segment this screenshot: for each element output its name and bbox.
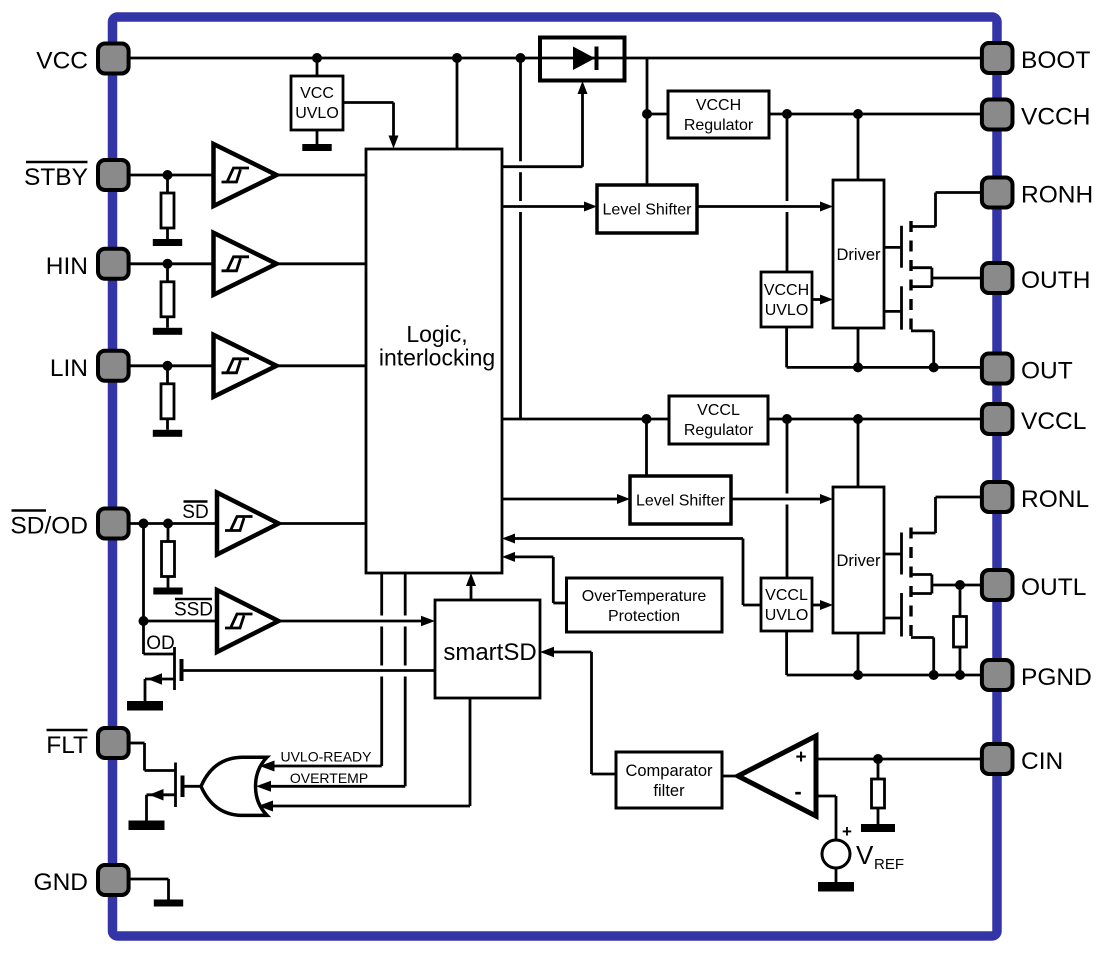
block OverTemperature Protection [567, 578, 723, 632]
voltage source VREF [822, 840, 850, 868]
label comparator minus [794, 779, 801, 804]
wire OVERTEMP [266, 785, 405, 788]
wire OTP to logic (arrowed) [502, 552, 567, 603]
svg-text:Level Shifter: Level Shifter [603, 202, 693, 219]
wire Q2 mid node to OUTL [911, 575, 980, 594]
wire BOOT to VCCH regulator [646, 58, 649, 114]
wire OD FET source drop [144, 679, 147, 701]
transistor FLT FET gate bar [181, 776, 185, 798]
wire logic to level shifter H (arrowed) [502, 202, 597, 212]
junction driver H tap [853, 109, 863, 119]
block VCCH UVLO [761, 272, 812, 327]
svg-text:Logic,: Logic, [406, 321, 467, 347]
wire VCCH rail [769, 113, 980, 116]
pin label RONH [1021, 182, 1093, 209]
svg-text:UVLO-READY: UVLO-READY [280, 749, 372, 765]
wire HIN buffer to logic [277, 262, 367, 265]
label SD (overline) [182, 502, 208, 524]
resistor LIN pulldown [161, 384, 174, 419]
svg-text:CIN: CIN [1021, 748, 1063, 775]
OR gate U1 (fault logic) [201, 757, 267, 815]
ground STBY pulldown [153, 239, 182, 246]
wire VCC UVLO drop [316, 58, 319, 76]
pin GND [98, 865, 129, 895]
label SSD (overline) [174, 599, 213, 621]
label VCCH Regulator [684, 97, 754, 134]
wire logic to level shifter L (arrowed) [502, 494, 630, 504]
wire logic to diode [502, 81, 588, 167]
svg-text:VCCL: VCCL [765, 587, 808, 604]
wire VCCH reg to level shifter [646, 114, 649, 185]
svg-text:Level Shifter: Level Shifter [636, 493, 726, 510]
junction VCCL UVLO tap [782, 414, 792, 424]
resistor HIN pulldown [161, 282, 174, 317]
resistor SD pulldown [162, 542, 175, 577]
pin label BOOT [1021, 47, 1090, 74]
ground HIN pulldown [153, 328, 182, 335]
svg-text:Comparator: Comparator [625, 762, 713, 780]
IC boundary (chip border) [113, 17, 998, 936]
svg-text:LIN: LIN [50, 355, 88, 382]
transistor OD FET gate bar [180, 659, 184, 681]
svg-text:Regulator: Regulator [684, 117, 754, 134]
wire OUT rail [787, 366, 980, 369]
block Level Shifter (high) [597, 185, 697, 233]
transistor Q1 gate lead 2 [884, 310, 902, 313]
wire OUTL resistor stem [959, 585, 962, 617]
pin label OUTL [1021, 574, 1086, 601]
wire VCCH regulator input [647, 113, 668, 116]
wire HIN resistor stem [166, 264, 169, 282]
transistor Q2 gate bar 2 [900, 593, 903, 637]
junction VCC-UVLO tap [312, 53, 322, 63]
junction OUTL resistor bottom [955, 670, 965, 680]
label VCCL Regulator [684, 402, 754, 439]
wire HIN input [129, 262, 214, 265]
ground LIN pulldown [153, 430, 182, 437]
wire comparator filter to smartSD (arrowed) [540, 647, 616, 774]
block Driver (low side) [833, 487, 884, 633]
junction SSD [139, 616, 149, 626]
transistor Q1 channel (dashed) [909, 221, 912, 338]
pin label VCC [36, 48, 88, 75]
pin HIN [98, 249, 129, 279]
wire SD/OD input [129, 522, 217, 525]
junction driver H bottom [853, 362, 863, 372]
wire OD FET source (arrowed) [145, 673, 175, 685]
wire comparator minus to VREF [816, 796, 836, 840]
svg-text:+: + [842, 822, 852, 841]
svg-text:OD: OD [146, 633, 175, 654]
svg-text:VCCH: VCCH [1021, 104, 1090, 131]
pin label LIN [50, 355, 88, 382]
wire OD FET to smartSD [183, 669, 436, 672]
svg-text:BOOT: BOOT [1021, 47, 1090, 74]
wire PGND rail [787, 674, 980, 677]
label VCCH UVLO [764, 282, 809, 319]
label Driver (high side) [837, 246, 882, 264]
svg-text:Regulator: Regulator [684, 422, 754, 439]
wire GND pin [129, 879, 169, 900]
schmitt buffer STBY [214, 144, 277, 206]
svg-text:PGND: PGND [1021, 664, 1092, 691]
pin VCCL [982, 404, 1013, 434]
svg-text:Driver: Driver [837, 552, 882, 570]
svg-text:OverTemperature: OverTemperature [582, 588, 707, 605]
label Level Shifter (high) [603, 202, 693, 219]
pin label VCCH [1021, 104, 1090, 131]
svg-text:VCCH: VCCH [764, 282, 809, 299]
pin VCCH [982, 100, 1013, 130]
block VCCL Regulator [669, 396, 768, 444]
pin label GND [34, 869, 88, 896]
wire VCCL UVLO ready to logic (arrowed) [502, 534, 761, 606]
junction CIN divider [873, 754, 883, 764]
transistor Q1 gate lead 1 [884, 246, 902, 249]
schmitt buffer SSD [217, 590, 279, 652]
schmitt buffer SD [217, 493, 279, 555]
wire STBY resistor stem [166, 175, 169, 193]
svg-text:OUTH: OUTH [1021, 267, 1090, 294]
junction Q1 source [929, 362, 939, 372]
wire comparator output [722, 775, 740, 778]
wire driver L to PGND rail [857, 633, 860, 675]
wire VCCL rail [768, 418, 980, 421]
junction driver L bottom [853, 670, 863, 680]
svg-text:VCC: VCC [300, 85, 334, 102]
label OverTemperature Protection [582, 588, 707, 625]
transistor Q2 gate lead 1 [884, 553, 902, 556]
wire SSD buffer to smartSD (arrowed) [279, 616, 436, 627]
junction logic tap [452, 53, 462, 63]
wire LIN input [129, 364, 214, 367]
pin CIN [982, 744, 1013, 774]
block Level Shifter (low) [630, 476, 731, 524]
svg-text:UVLO: UVLO [295, 105, 339, 122]
wire CIN to comparator plus [816, 758, 980, 761]
wire SD/OD down to SSD node [142, 524, 145, 655]
pin label OUT [1021, 358, 1073, 385]
schmitt buffer HIN [214, 233, 277, 295]
wire VCCL to driver L [857, 419, 860, 487]
svg-text:Protection: Protection [608, 608, 680, 625]
wire Q2 drain to RONL [911, 497, 980, 533]
svg-text:VCC: VCC [36, 48, 88, 75]
block Logic interlocking [366, 149, 502, 573]
label OD [146, 633, 175, 654]
pin OUTH [982, 263, 1013, 293]
wire VCCL UVLO to driver (arrowed) [812, 600, 833, 610]
svg-text:interlocking: interlocking [379, 345, 495, 371]
wire SD pulldown stem [167, 524, 170, 542]
ground SD pulldown [153, 588, 182, 595]
junction LIN pulldown [163, 361, 173, 371]
wire CIN resistor stem [877, 759, 880, 779]
junction SD/OD b [163, 519, 173, 529]
wire VCCH to driver H [857, 114, 860, 180]
wire logic to UVLO-READY (with crossover gaps) [380, 573, 383, 766]
wire VCC UVLO to logic (arrowed) [343, 103, 399, 149]
pin VCC [98, 44, 129, 74]
svg-text:+: + [795, 747, 806, 768]
resistor STBY pulldown [161, 193, 174, 228]
label smartSD [443, 639, 536, 666]
junction HIN pulldown [163, 259, 173, 269]
wire VCCH UVLO to driver (arrowed) [812, 295, 833, 305]
svg-text:Driver: Driver [837, 246, 882, 264]
wire Q1 mid node to OUTH [911, 268, 980, 287]
block VCCH Regulator [668, 91, 769, 138]
wire SD buffer to logic [279, 522, 367, 525]
pin OUTL [982, 570, 1013, 600]
resistor CIN [872, 779, 885, 808]
junction LS2 tap [642, 414, 652, 424]
wire VCCL to UVLO (with crossover gap) [786, 419, 789, 578]
label OVERTEMP [290, 770, 368, 786]
label Driver (low side) [837, 552, 882, 570]
pin FLT [98, 728, 129, 758]
block Comparator filter [616, 752, 722, 808]
diode box [540, 38, 625, 81]
transistor Q1 gate bar 1 [900, 226, 903, 268]
svg-text:VCCH: VCCH [696, 97, 741, 114]
arrow OR input OVERTEMP [256, 781, 271, 792]
label Comparator filter [625, 762, 713, 800]
junction VCCL-reg tap [516, 53, 526, 63]
svg-text:HIN: HIN [46, 253, 88, 280]
svg-text:RONL: RONL [1021, 486, 1089, 513]
wire OUTL resistor to PGND [959, 647, 962, 675]
wire FLT FET source drop [145, 795, 148, 821]
svg-text:SD: SD [182, 502, 208, 523]
junction OUTL pullup top [955, 580, 965, 590]
svg-text:filter: filter [653, 782, 685, 800]
wire driver H to OUT rail [857, 328, 860, 367]
wire VCCH UVLO to OUT rail [785, 327, 788, 367]
svg-text:smartSD: smartSD [443, 639, 536, 666]
wire STBY resistor to ground [166, 228, 169, 239]
junction STBY pulldown [163, 170, 173, 180]
diode D1 [573, 47, 597, 71]
wire VCCH to UVLO (with crossover gap) [786, 114, 789, 272]
wire CIN resistor to ground [877, 808, 880, 824]
block smartSD [435, 600, 540, 698]
junction Q2 source [929, 670, 939, 680]
pin label OUTH [1021, 267, 1090, 294]
label Logic interlocking [379, 321, 495, 371]
pin label VCCL [1021, 408, 1086, 435]
wire FLT FET source (arrowed) [147, 789, 176, 801]
junction VCCH regulator input [642, 109, 652, 119]
pin OUT [982, 354, 1013, 384]
svg-text:FLT: FLT [46, 732, 88, 759]
pin BOOT [982, 43, 1013, 73]
wire Q1 source to OUT [911, 331, 934, 368]
pin label SD/OD (overline over SD) [10, 511, 88, 540]
wire VCCL regulator feed (with crossover gaps) [519, 58, 522, 419]
wire LIN resistor stem [166, 366, 169, 384]
wire FLT FET gate lead [184, 785, 202, 788]
pin label CIN [1021, 748, 1063, 775]
comparator U2 [738, 736, 816, 816]
pin RONL [982, 482, 1013, 512]
label VCCL UVLO [765, 587, 809, 624]
transistor Q2 gate bar 1 [900, 533, 903, 575]
wire SSD to buffer [144, 620, 218, 623]
pin LIN [98, 351, 129, 381]
arrow OR input 3 [258, 801, 273, 812]
wire FLT pin to FET [129, 743, 176, 771]
svg-text:STBY: STBY [24, 164, 88, 191]
junction VCCH UVLO tap [782, 109, 792, 119]
ground CIN resistor [861, 824, 895, 832]
pin label HIN [46, 253, 88, 280]
label VREF [856, 840, 904, 873]
ground OD FET [127, 701, 163, 711]
wire LIN buffer to logic [277, 364, 367, 367]
wire LIN resistor to ground [166, 419, 169, 430]
wire VCC rail to BOOT [129, 57, 980, 60]
ground VCC UVLO [302, 144, 331, 151]
pin SD/OD [98, 509, 129, 539]
svg-text:OUTL: OUTL [1021, 574, 1086, 601]
wire level shifter L to driver (arrowed) [731, 494, 833, 504]
label VREF plus [842, 822, 852, 841]
svg-text:GND: GND [34, 869, 88, 896]
transistor Q2 channel (dashed) [909, 528, 912, 645]
svg-text:VCCL: VCCL [697, 402, 740, 419]
label UVLO-READY [280, 749, 372, 765]
block VCCL UVLO [761, 578, 812, 631]
svg-text:UVLO: UVLO [765, 302, 809, 319]
pin PGND [982, 660, 1013, 690]
pin STBY [98, 160, 129, 190]
block VCC UVLO [291, 76, 343, 130]
wire Q2 source to PGND [911, 638, 934, 676]
wire VCC UVLO ground stem [316, 130, 319, 144]
pin label PGND [1021, 664, 1092, 691]
svg-text:SSD: SSD [174, 600, 213, 621]
pin label STBY (overline) [24, 162, 88, 191]
svg-text:-: - [794, 779, 801, 804]
wire STBY buffer to logic [277, 174, 367, 177]
ground FLT FET [129, 821, 165, 831]
svg-text:OVERTEMP: OVERTEMP [290, 770, 368, 786]
wire SD resistor to ground [167, 577, 170, 588]
wire smartSD to logic (arrowed) [466, 573, 476, 600]
svg-text:REF: REF [874, 856, 904, 873]
svg-text:RONH: RONH [1021, 182, 1093, 209]
transistor Q1 gate bar 2 [900, 286, 903, 329]
wire logic to OVERTEMP (with crossover gaps) [404, 573, 407, 786]
svg-text:SD/OD: SD/OD [10, 513, 88, 540]
transistor FLT FET channel bar [174, 763, 177, 808]
wire HIN resistor to ground [166, 317, 169, 328]
junction driver L tap [853, 414, 863, 424]
wire logic to VCCL regulator [502, 418, 669, 421]
svg-text:V: V [856, 840, 874, 870]
pin label FLT (overline) [46, 730, 88, 759]
svg-text:VCCL: VCCL [1021, 408, 1086, 435]
svg-text:UVLO: UVLO [765, 607, 809, 624]
ground GND pin [154, 900, 183, 907]
wire UVLO-READY [270, 765, 382, 768]
wire Q1 drain to RONH [911, 193, 980, 227]
wire logic top drop [456, 58, 459, 149]
schmitt buffer LIN [214, 335, 277, 397]
wire VREF to ground [835, 868, 838, 882]
transistor OD FET channel bar [173, 647, 176, 690]
block Driver (high side) [833, 180, 884, 328]
wire VCCL reg to level shifter L [645, 419, 648, 476]
wire STBY input [129, 174, 214, 177]
transistor Q2 gate lead 2 [884, 617, 902, 620]
wire level shifter H to driver (arrowed) [697, 202, 833, 212]
wire OD to FET gate [144, 653, 175, 656]
label VCC UVLO [295, 85, 339, 122]
resistor OUTL-PGND [954, 617, 967, 648]
wire VCCL UVLO to PGND rail [785, 631, 788, 675]
label Level Shifter (low) [636, 493, 726, 510]
pin RONH [982, 178, 1013, 208]
pin label RONL [1021, 486, 1089, 513]
wire smartSD bottom to OR gate [271, 698, 470, 806]
label comparator plus [795, 747, 806, 768]
arrow OR input UVLO-READY [260, 761, 275, 772]
svg-text:OUT: OUT [1021, 358, 1073, 385]
junction SD/OD a [139, 519, 149, 529]
ground VREF [818, 882, 854, 892]
